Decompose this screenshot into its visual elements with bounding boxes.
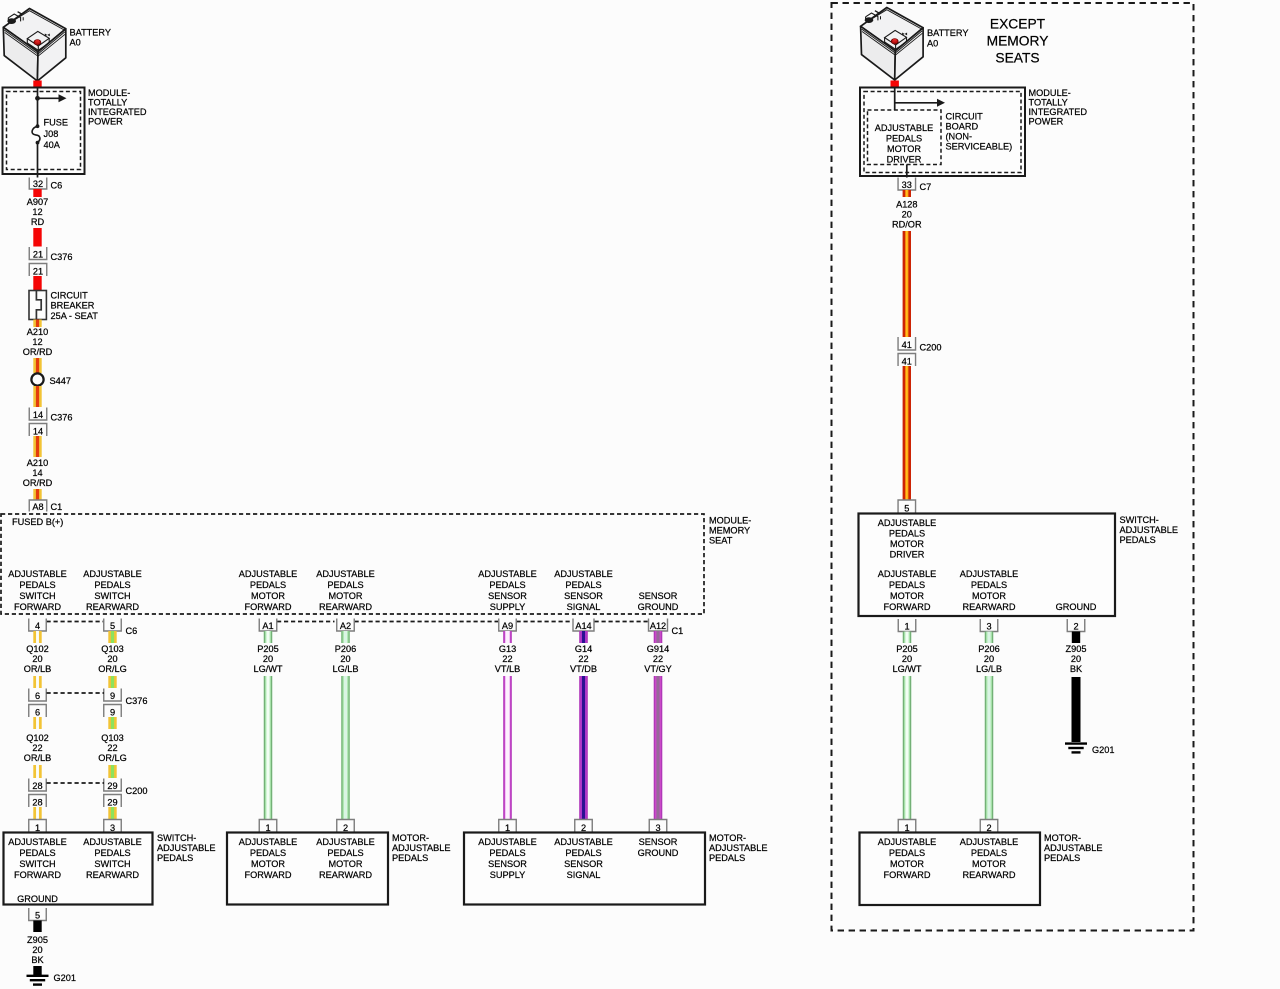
svg-text:SUPPLY: SUPPLY xyxy=(490,870,526,880)
wire label Q102 20 OR/LB xyxy=(24,644,52,674)
svg-text:A210: A210 xyxy=(27,327,48,337)
svg-text:12: 12 xyxy=(32,207,42,217)
svg-text:PEDALS: PEDALS xyxy=(489,580,525,590)
svg-text:SERVICEABLE): SERVICEABLE) xyxy=(946,142,1013,152)
svg-text:G201: G201 xyxy=(1092,745,1114,755)
wire - inside TIPM (right) xyxy=(894,88,896,111)
wire - battery A0 to TIPM (red) xyxy=(33,81,41,88)
device box - SWITCH-ADJUSTABLE PEDALS (right) xyxy=(859,514,1116,617)
wire stub below pin 32 (red) xyxy=(33,189,41,197)
svg-text:9: 9 xyxy=(110,708,115,718)
wire label Z905 20 BK (left) xyxy=(27,935,48,965)
pin 33 connector C7 (TIPM output) xyxy=(898,178,916,191)
svg-text:TOTALLY: TOTALLY xyxy=(1029,97,1068,107)
wire Q102 22 (above C200) xyxy=(33,765,41,778)
device pin label - ADJUSTABLE PEDALS MOTOR REARWARD (right switch) xyxy=(960,569,1019,612)
svg-text:OR/LG: OR/LG xyxy=(98,664,127,674)
svg-text:FUSE: FUSE xyxy=(44,118,69,128)
wire G914 long (VT/GY) xyxy=(654,676,662,820)
wire A128 (RD/OR) to switch-adjustable pedals xyxy=(903,366,911,500)
connector C376 pin 9 (upper) xyxy=(104,689,122,702)
svg-text:C376: C376 xyxy=(126,696,148,706)
svg-text:ADJUSTABLE: ADJUSTABLE xyxy=(878,518,937,528)
pin 1 switch-adjustable pedals xyxy=(29,820,47,834)
FUSE J08 40A label xyxy=(44,118,69,151)
svg-text:28: 28 xyxy=(32,781,42,791)
svg-text:40A: 40A xyxy=(44,140,61,150)
svg-text:C376: C376 xyxy=(51,413,73,423)
svg-text:C1: C1 xyxy=(672,626,684,636)
wire A210 12 (OR/RD) above splice xyxy=(33,358,41,373)
wire stub below C376 (OR/LG) xyxy=(108,717,116,729)
svg-text:21: 21 xyxy=(33,267,43,277)
svg-text:ADJUSTABLE: ADJUSTABLE xyxy=(1044,843,1103,853)
pin 1 (device input) xyxy=(259,820,277,834)
svg-text:LG/WT: LG/WT xyxy=(892,664,921,674)
battery A0 (left) xyxy=(3,9,66,82)
wire A128 (RD/OR) to C200 xyxy=(903,231,911,337)
pin 2 (device input) xyxy=(575,820,593,834)
svg-text:BATTERY: BATTERY xyxy=(70,28,112,38)
module pin label - ADJUSTABLE PEDALS SENSOR SIGNAL xyxy=(554,569,613,612)
svg-text:INTEGRATED: INTEGRATED xyxy=(88,107,147,117)
module pin label - ADJUSTABLE PEDALS MOTOR FORWARD xyxy=(239,569,298,612)
svg-text:PEDALS: PEDALS xyxy=(1120,535,1156,545)
module pin label - ADJUSTABLE PEDALS SWITCH REARWARD xyxy=(83,569,142,612)
module pin label - SENSOR GROUND xyxy=(638,591,679,612)
splice S447 xyxy=(31,373,43,385)
svg-text:PEDALS: PEDALS xyxy=(392,853,428,863)
SWITCH-ADJUSTABLE PEDALS label (right) xyxy=(1120,515,1179,545)
wire label Z905 20 BK (right) xyxy=(1066,644,1087,674)
svg-text:SENSOR: SENSOR xyxy=(564,591,603,601)
wire label P206 20 LG/LB (right) xyxy=(976,644,1002,674)
svg-text:SWITCH: SWITCH xyxy=(94,859,130,869)
pin A2 connector C1 xyxy=(337,619,355,632)
svg-text:MOTOR: MOTOR xyxy=(890,539,924,549)
svg-text:PEDALS: PEDALS xyxy=(889,580,925,590)
svg-text:5: 5 xyxy=(35,911,40,921)
svg-text:A2: A2 xyxy=(340,621,351,631)
svg-text:14: 14 xyxy=(33,410,43,420)
svg-text:20: 20 xyxy=(902,210,912,220)
svg-text:MOTOR: MOTOR xyxy=(328,859,362,869)
svg-text:SWITCH: SWITCH xyxy=(19,859,55,869)
device box - MOTOR-ADJUSTABLE PEDALS (right) xyxy=(860,833,1041,906)
wire label Q103 22 OR/LG xyxy=(98,733,127,763)
MOTOR-ADJUSTABLE PEDALS label (left motors) xyxy=(392,833,451,863)
module pin label - ADJUSTABLE PEDALS SENSOR SUPPLY xyxy=(478,569,537,612)
wire - C376 to circuit breaker (red) xyxy=(33,276,41,291)
pin 2 (right switch ground) xyxy=(1067,619,1085,632)
svg-text:14: 14 xyxy=(33,427,43,437)
svg-text:GROUND: GROUND xyxy=(638,848,679,858)
connector C376 pin 6 (lower) xyxy=(29,705,47,718)
wire P205 long (LG/WT) xyxy=(264,676,272,820)
wire label P205 20 LG/WT (left) xyxy=(253,644,282,674)
svg-text:SWITCH-: SWITCH- xyxy=(1120,515,1159,525)
svg-text:MOTOR: MOTOR xyxy=(328,591,362,601)
svg-text:G14: G14 xyxy=(575,644,592,654)
wire P205 long (LG/WT right) xyxy=(903,676,911,820)
ADJUSTABLE PEDALS MOTOR DRIVER label (TIPM) xyxy=(875,123,934,165)
svg-text:22: 22 xyxy=(502,654,512,664)
connector C200 dashed link (pins 28-29) xyxy=(47,782,105,784)
connector C376 pin 6 (upper) xyxy=(29,689,47,702)
svg-text:MOTOR: MOTOR xyxy=(887,144,921,154)
svg-text:PEDALS: PEDALS xyxy=(971,580,1007,590)
svg-text:SEAT: SEAT xyxy=(709,536,733,546)
svg-text:A8: A8 xyxy=(32,502,43,512)
wire stub below C376 pin 14 (OR/RD) xyxy=(33,436,41,457)
svg-text:EXCEPT: EXCEPT xyxy=(990,17,1046,32)
connector C376 pin 9 (lower) xyxy=(104,705,122,718)
svg-text:20: 20 xyxy=(107,654,117,664)
arrow - feed to other circuits (left) xyxy=(38,94,67,102)
svg-text:28: 28 xyxy=(32,798,42,808)
svg-text:2: 2 xyxy=(1073,622,1078,632)
svg-text:C7: C7 xyxy=(920,182,932,192)
wire P206 long (LG/LB) xyxy=(341,676,349,820)
svg-text:POWER: POWER xyxy=(88,116,123,126)
svg-text:14: 14 xyxy=(32,468,42,478)
svg-text:P205: P205 xyxy=(257,644,278,654)
svg-text:PEDALS: PEDALS xyxy=(157,853,193,863)
wire P206 long (LG/LB right) xyxy=(985,676,993,820)
svg-text:SWITCH: SWITCH xyxy=(19,591,55,601)
svg-text:20: 20 xyxy=(984,654,994,664)
device pin label - ADJUSTABLE PEDALS SWITCH FORWARD xyxy=(8,837,67,880)
svg-text:C6: C6 xyxy=(126,626,138,636)
svg-text:ADJUSTABLE: ADJUSTABLE xyxy=(875,123,934,133)
svg-text:SENSOR: SENSOR xyxy=(488,859,527,869)
pin 32 connector C6 (TIPM output) xyxy=(29,178,47,190)
svg-text:PEDALS: PEDALS xyxy=(327,580,363,590)
svg-text:ADJUSTABLE: ADJUSTABLE xyxy=(392,843,451,853)
svg-text:4: 4 xyxy=(35,621,40,631)
svg-text:REARWARD: REARWARD xyxy=(962,870,1015,880)
svg-text:PEDALS: PEDALS xyxy=(889,529,925,539)
device pin label - ADJUSTABLE PEDALS SWITCH REARWARD xyxy=(83,837,142,880)
svg-text:(NON-: (NON- xyxy=(946,132,973,142)
svg-text:21: 21 xyxy=(33,250,43,260)
pin A12 connector C1 xyxy=(649,619,668,632)
connector C200 pin 29 (upper) xyxy=(104,779,122,792)
svg-text:GROUND: GROUND xyxy=(17,894,58,904)
svg-text:C376: C376 xyxy=(51,252,73,262)
svg-text:ADJUSTABLE: ADJUSTABLE xyxy=(878,569,937,579)
MOTOR-ADJUSTABLE PEDALS label (sensors) xyxy=(709,833,768,863)
svg-text:20: 20 xyxy=(340,654,350,664)
wire A210 (OR/RD) below splice xyxy=(33,386,41,407)
pin 3 (right switch output) xyxy=(980,619,998,632)
svg-text:SENSOR: SENSOR xyxy=(639,591,678,601)
arrow - feed to other circuits (right) xyxy=(895,99,945,107)
wire stub below pin 33 (RD/OR) xyxy=(903,190,911,197)
svg-text:MOTOR: MOTOR xyxy=(972,591,1006,601)
device pin label - ADJUSTABLE PEDALS SENSOR SIGNAL xyxy=(554,837,613,880)
connector C376 dashed link (pins 6-9) xyxy=(47,692,105,694)
svg-text:VT/LB: VT/LB xyxy=(495,664,521,674)
svg-text:BOARD: BOARD xyxy=(946,122,979,132)
svg-text:29: 29 xyxy=(107,798,117,808)
device box - SWITCH-ADJUSTABLE PEDALS (left) xyxy=(4,833,153,905)
pin 4 connector C6 xyxy=(29,619,47,632)
svg-text:SENSOR: SENSOR xyxy=(564,859,603,869)
device pin label - ADJUSTABLE PEDALS MOTOR FORWARD (right switch) xyxy=(878,569,937,612)
svg-text:VT/DB: VT/DB xyxy=(570,664,597,674)
wire Q103 (above C376) xyxy=(108,676,116,688)
wire stub - pin 5 (OR/LG) xyxy=(108,631,116,643)
svg-text:Z905: Z905 xyxy=(1066,644,1087,654)
svg-text:FORWARD: FORWARD xyxy=(14,602,61,612)
wire label G914 22 VT/GY xyxy=(644,644,672,674)
svg-text:3: 3 xyxy=(986,622,991,632)
wire A210 14 (OR/RD) to module-memory seat xyxy=(33,489,41,500)
device pin label - ADJUSTABLE PEDALS MOTOR FORWARD (left) xyxy=(239,837,298,880)
svg-text:MOTOR: MOTOR xyxy=(890,859,924,869)
svg-text:41: 41 xyxy=(902,340,912,350)
svg-text:MOTOR-: MOTOR- xyxy=(392,833,429,843)
svg-text:Q103: Q103 xyxy=(101,733,123,743)
svg-text:PEDALS: PEDALS xyxy=(971,848,1007,858)
svg-text:20: 20 xyxy=(1071,654,1081,664)
svg-text:GROUND: GROUND xyxy=(1056,602,1097,612)
svg-text:SIGNAL: SIGNAL xyxy=(567,602,601,612)
svg-text:P206: P206 xyxy=(335,644,356,654)
wire stub - pin A9 (VT/LB) xyxy=(503,631,511,643)
device pin label - ADJUSTABLE PEDALS MOTOR REARWARD (left) xyxy=(316,837,375,880)
svg-text:BREAKER: BREAKER xyxy=(51,301,95,311)
svg-text:6: 6 xyxy=(35,708,40,718)
svg-text:DRIVER: DRIVER xyxy=(887,155,922,165)
wire stub - pin 1 (LG/WT right) xyxy=(903,632,911,644)
svg-text:MOTOR: MOTOR xyxy=(972,859,1006,869)
svg-text:C200: C200 xyxy=(920,343,942,353)
svg-text:PEDALS: PEDALS xyxy=(565,580,601,590)
connector C6 dashed link (pins 4-5) xyxy=(47,621,105,623)
MODULE-MEMORY SEAT label xyxy=(709,516,751,546)
svg-text:G13: G13 xyxy=(499,644,516,654)
svg-text:ADJUSTABLE: ADJUSTABLE xyxy=(8,837,67,847)
svg-text:RD/OR: RD/OR xyxy=(892,220,922,230)
svg-text:CIRCUIT: CIRCUIT xyxy=(946,112,984,122)
svg-text:BATTERY: BATTERY xyxy=(927,28,969,38)
svg-text:MODULE-: MODULE- xyxy=(709,516,751,526)
CIRCUIT BREAKER 25A-SEAT label xyxy=(51,290,99,321)
svg-text:S447: S447 xyxy=(50,376,71,386)
svg-text:REARWARD: REARWARD xyxy=(319,870,372,880)
device pin label - ADJUSTABLE PEDALS SENSOR SUPPLY xyxy=(478,837,537,880)
svg-text:PEDALS: PEDALS xyxy=(709,853,745,863)
svg-text:PEDALS: PEDALS xyxy=(19,580,55,590)
svg-text:MOTOR-: MOTOR- xyxy=(709,833,746,843)
wire Q102 (above C376) xyxy=(33,676,41,688)
svg-text:ADJUSTABLE: ADJUSTABLE xyxy=(554,569,613,579)
svg-text:ADJUSTABLE: ADJUSTABLE xyxy=(316,569,375,579)
connector C200 pin 28 (lower) xyxy=(29,795,47,808)
svg-text:BK: BK xyxy=(31,955,44,965)
wire - fuse to pin 32 (left TIPM) xyxy=(37,143,39,178)
wire stub - pin 4 (OR/LB) xyxy=(33,631,41,643)
pin 3 (device input) xyxy=(649,820,667,834)
svg-text:33: 33 xyxy=(902,180,912,190)
wire label Q103 20 OR/LG xyxy=(98,644,127,674)
wire stub - pin A1 (LG/WT) xyxy=(264,631,272,643)
svg-text:PEDALS: PEDALS xyxy=(250,848,286,858)
wire Z905 (BK) to ground xyxy=(33,966,41,975)
svg-text:ADJUSTABLE: ADJUSTABLE xyxy=(239,569,298,579)
svg-text:ADJUSTABLE: ADJUSTABLE xyxy=(83,569,142,579)
svg-text:REARWARD: REARWARD xyxy=(86,602,139,612)
svg-text:ADJUSTABLE: ADJUSTABLE xyxy=(478,569,537,579)
MODULE-TOTALLY INTEGRATED POWER label (left) xyxy=(88,88,147,127)
wire stub - pin A12 (VT/GY) xyxy=(654,631,662,643)
EXCEPT MEMORY SEATS title xyxy=(987,17,1049,66)
module pin label - ADJUSTABLE PEDALS MOTOR REARWARD xyxy=(316,569,375,612)
svg-text:G914: G914 xyxy=(647,644,669,654)
wire G14 long (VT/DB) xyxy=(579,676,587,820)
wire stub below circuit breaker (OR/RD) xyxy=(33,320,41,328)
dashed frame - EXCEPT MEMORY SEATS variant xyxy=(832,3,1194,931)
svg-text:MOTOR: MOTOR xyxy=(251,859,285,869)
svg-text:INTEGRATED: INTEGRATED xyxy=(1029,107,1088,117)
svg-text:MOTOR: MOTOR xyxy=(251,591,285,601)
ground G201 symbol (left) xyxy=(27,976,49,985)
battery A0 (right) xyxy=(861,8,924,81)
wire label A210 12 OR/RD xyxy=(23,327,53,357)
svg-text:LG/LB: LG/LB xyxy=(332,664,358,674)
pin 1 (right switch output) xyxy=(898,619,916,632)
device pin label - SENSOR GROUND (device) xyxy=(638,837,679,858)
svg-text:A210: A210 xyxy=(27,458,48,468)
svg-text:A0: A0 xyxy=(927,39,938,49)
svg-text:A128: A128 xyxy=(896,200,917,210)
circuit breaker 25A-SEAT symbol xyxy=(29,291,46,320)
pin 3 switch-adjustable pedals xyxy=(104,820,122,834)
MOTOR-ADJUSTABLE PEDALS label (right) xyxy=(1044,833,1103,863)
wire stub - pin A2 (LG/LB) xyxy=(341,631,349,643)
wire - motor driver to pin 33 xyxy=(906,165,908,178)
svg-text:A1: A1 xyxy=(262,621,273,631)
BATTERY A0 label (right) xyxy=(927,28,969,49)
device box - MOTOR-ADJUSTABLE PEDALS (left motors) xyxy=(227,833,388,905)
pin 5 (switch ground output) xyxy=(29,908,47,921)
wire stub - pin 2 (BK right) xyxy=(1072,632,1080,644)
svg-text:MOTOR-: MOTOR- xyxy=(1044,833,1081,843)
svg-text:C6: C6 xyxy=(51,181,63,191)
ground G201 symbol (right) xyxy=(1065,744,1087,753)
svg-text:SWITCH-: SWITCH- xyxy=(157,833,196,843)
svg-text:SENSOR: SENSOR xyxy=(488,591,527,601)
svg-text:MOTOR: MOTOR xyxy=(890,591,924,601)
BATTERY A0 label (left) xyxy=(70,28,112,48)
svg-text:25A - SEAT: 25A - SEAT xyxy=(51,311,99,321)
ADJUSTABLE PEDALS MOTOR DRIVER label (switch box) xyxy=(878,518,937,560)
svg-text:OR/RD: OR/RD xyxy=(23,347,53,357)
wire G13 long (VT/LB) xyxy=(503,676,511,820)
module box - MODULE-TOTALLY INTEGRATED POWER (left) xyxy=(3,88,85,175)
svg-text:ADJUSTABLE: ADJUSTABLE xyxy=(239,837,298,847)
connector C1 dashed link (pins A1-A12) xyxy=(277,621,648,623)
wire stub - pin 3 (LG/LB right) xyxy=(985,632,993,644)
wire stub - pin A14 (VT/DB) xyxy=(579,631,587,643)
pin 1 (device input) xyxy=(499,820,517,834)
SWITCH-ADJUSTABLE PEDALS label xyxy=(157,833,216,863)
wire label A210 14 OR/RD xyxy=(23,458,53,488)
svg-text:6: 6 xyxy=(35,691,40,701)
connector C376 pin 21 (upper) xyxy=(29,247,47,260)
svg-text:A9: A9 xyxy=(502,621,513,631)
wire label A907 12 RD xyxy=(27,197,48,227)
svg-text:22: 22 xyxy=(578,654,588,664)
svg-text:A0: A0 xyxy=(70,38,81,48)
svg-text:FORWARD: FORWARD xyxy=(14,870,61,880)
svg-text:REARWARD: REARWARD xyxy=(962,602,1015,612)
svg-text:20: 20 xyxy=(32,654,42,664)
CIRCUIT BOARD (NON-SERVICEABLE) label xyxy=(946,112,1013,152)
pin A8 connector C1 (module-memory seat input) xyxy=(29,500,47,512)
wire label P205 20 LG/WT (right) xyxy=(892,644,921,674)
svg-text:PEDALS: PEDALS xyxy=(889,848,925,858)
svg-text:PEDALS: PEDALS xyxy=(250,580,286,590)
pin 1 (right motor input) xyxy=(898,820,916,834)
svg-text:POWER: POWER xyxy=(1029,116,1064,126)
svg-text:22: 22 xyxy=(107,743,117,753)
svg-text:20: 20 xyxy=(263,654,273,664)
svg-text:5: 5 xyxy=(110,621,115,631)
svg-text:5: 5 xyxy=(904,504,909,514)
svg-text:PEDALS: PEDALS xyxy=(489,848,525,858)
svg-text:OR/LB: OR/LB xyxy=(24,664,52,674)
pin A1 connector C1 xyxy=(259,619,277,632)
wire stub - switch ground (BK) xyxy=(33,921,41,933)
svg-text:REARWARD: REARWARD xyxy=(319,602,372,612)
wire stub below C376 (OR/LB) xyxy=(33,717,41,729)
wire Z905 (BK right) to ground xyxy=(1072,677,1081,742)
svg-text:ADJUSTABLE: ADJUSTABLE xyxy=(960,569,1019,579)
wire - inside TIPM from battery feed (left) xyxy=(37,88,39,127)
module pin label - ADJUSTABLE PEDALS SWITCH FORWARD xyxy=(8,569,67,612)
svg-text:P205: P205 xyxy=(896,644,917,654)
svg-text:GROUND: GROUND xyxy=(638,602,679,612)
svg-text:A907: A907 xyxy=(27,197,48,207)
svg-text:20: 20 xyxy=(902,654,912,664)
connector C376 pin 14 (upper) xyxy=(29,408,47,421)
svg-text:Q102: Q102 xyxy=(26,733,48,743)
svg-text:J08: J08 xyxy=(44,129,59,139)
svg-text:BK: BK xyxy=(1070,664,1083,674)
svg-text:ADJUSTABLE: ADJUSTABLE xyxy=(478,837,537,847)
wire label A128 20 RD/OR xyxy=(892,200,922,230)
svg-text:MODULE-: MODULE- xyxy=(1029,88,1071,98)
svg-text:FORWARD: FORWARD xyxy=(884,870,931,880)
svg-text:Q102: Q102 xyxy=(26,644,48,654)
svg-text:LG/WT: LG/WT xyxy=(253,664,282,674)
device pin label - ADJUSTABLE PEDALS MOTOR REARWARD (right motor) xyxy=(960,837,1019,880)
svg-text:A12: A12 xyxy=(650,621,666,631)
svg-text:MEMORY: MEMORY xyxy=(709,526,750,536)
pin 5 (switch-adjustable pedals input) xyxy=(898,500,916,514)
svg-text:SENSOR: SENSOR xyxy=(639,837,678,847)
svg-text:FORWARD: FORWARD xyxy=(245,870,292,880)
svg-text:FUSED B(+): FUSED B(+) xyxy=(12,517,63,527)
pin A14 connector C1 xyxy=(573,619,594,632)
svg-text:29: 29 xyxy=(107,781,117,791)
wire label G14 22 VT/DB xyxy=(570,644,597,674)
svg-text:12: 12 xyxy=(32,337,42,347)
svg-text:20: 20 xyxy=(32,945,42,955)
